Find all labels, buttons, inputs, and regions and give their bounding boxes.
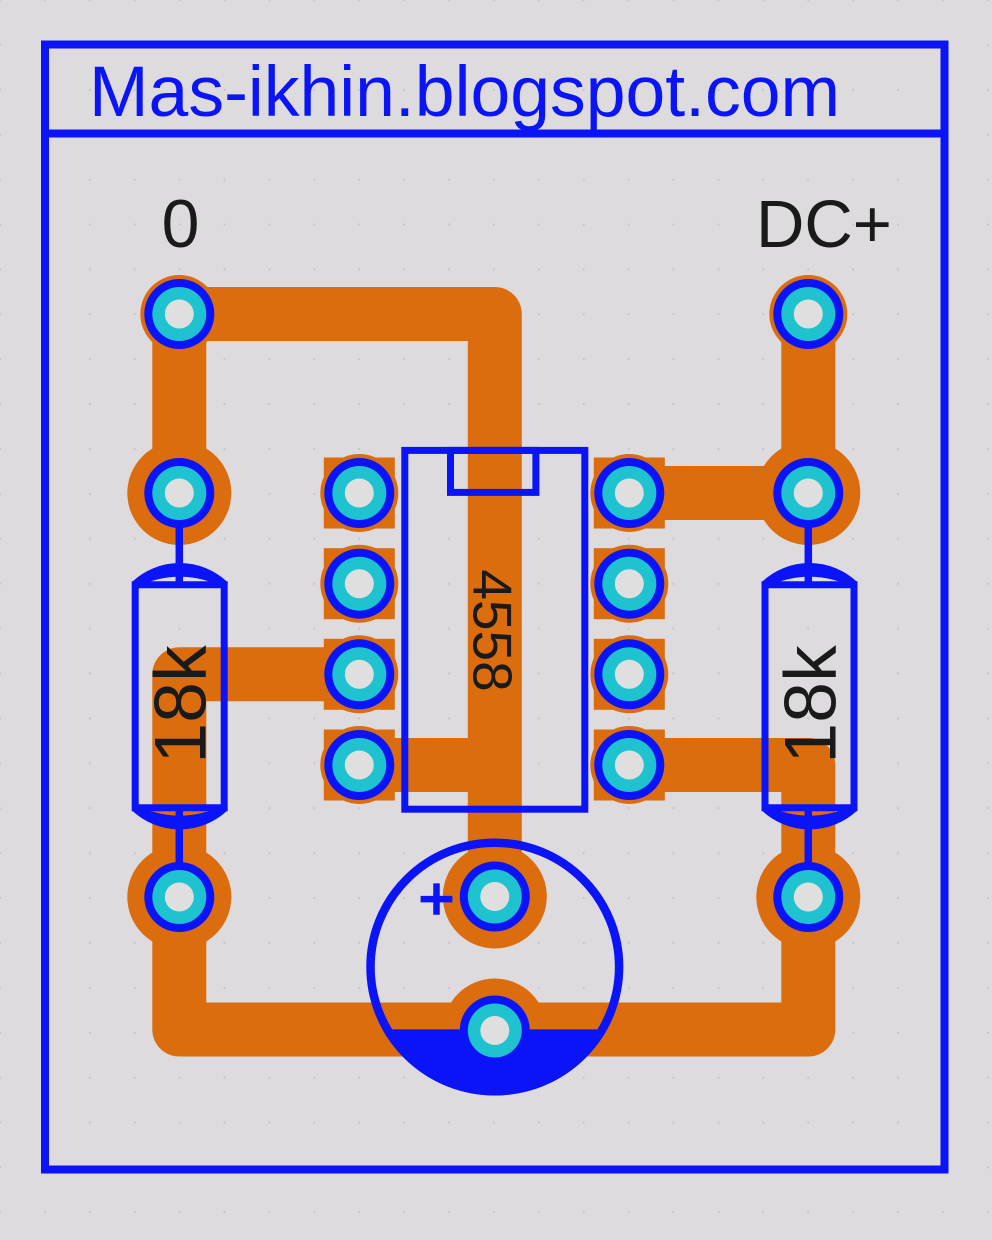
pad DC+ copper <box>769 275 847 353</box>
svg-text:18k: 18k <box>139 645 222 764</box>
resistor R2 body <box>765 585 854 808</box>
resistor R1 body <box>135 585 224 808</box>
U1 pin 5 copper <box>590 726 668 804</box>
U1 pin 4 annular ring and hole <box>324 730 394 800</box>
svg-text:0: 0 <box>162 186 200 262</box>
pad 0 copper <box>140 275 218 353</box>
capacitor C1 plus marking <box>421 883 453 914</box>
U1 pin 6 annular ring and hole <box>594 639 664 709</box>
capacitor C1 polarity stripe fill <box>383 1029 608 1095</box>
resistor R2 end domes <box>765 567 854 825</box>
resistor R1 leads <box>176 493 184 897</box>
R1 top pad annular ring and hole <box>144 458 214 528</box>
U1 pin 6 copper <box>590 635 668 713</box>
op-amp U1 pin-1 notch <box>451 450 536 492</box>
pad 0 annular ring and hole <box>144 279 214 349</box>
svg-text:4558: 4558 <box>461 569 523 691</box>
U1 pin 2 annular ring and hole <box>324 549 394 619</box>
resistor R2 end seams <box>765 574 854 819</box>
R1 bottom pad copper <box>127 845 231 949</box>
title separator line <box>45 130 945 138</box>
R1 top pad copper <box>127 441 231 545</box>
U1 pin 7 copper <box>590 545 668 623</box>
C1 minus pad annular ring and hole <box>460 996 530 1066</box>
wire: trace from pad 0 right and down through U1 to C1 plus pad <box>179 314 495 897</box>
R1 bottom pad annular ring and hole <box>144 862 214 932</box>
svg-text:Mas-ikhin.blogspot.com: Mas-ikhin.blogspot.com <box>89 52 840 132</box>
U1 pin 3 copper <box>320 635 398 713</box>
C1 plus pad copper <box>443 845 547 949</box>
wire: trace from pad 0 down to R1 top pad <box>152 314 206 493</box>
U1 pin 8 annular ring and hole <box>594 458 664 528</box>
R2 top pad annular ring and hole <box>773 458 843 528</box>
svg-text:DC+: DC+ <box>756 187 892 262</box>
wire: trace from U1 pin 4 to center vertical trace <box>359 738 495 792</box>
C1 plus pad annular ring and hole <box>460 862 530 932</box>
resistor R2 leads <box>805 493 813 897</box>
U1 pin 8 copper <box>590 454 668 532</box>
op-amp U1 body outline <box>405 450 585 809</box>
wire: trace from U1 pin 3 left then down to R1 bottom pad <box>179 674 359 897</box>
resistor R1 end domes <box>135 567 224 825</box>
U1 pin 1 annular ring and hole <box>324 458 394 528</box>
R2 bottom pad copper <box>756 845 860 949</box>
C1 minus pad copper <box>443 979 547 1083</box>
U1 pin 3 annular ring and hole <box>324 639 394 709</box>
R2 top pad copper <box>756 441 860 545</box>
wire: trace from U1 pin 8 to R2 top pad <box>629 466 808 520</box>
U1 pin 5 annular ring and hole <box>594 730 664 800</box>
U1 pin 4 copper <box>320 726 398 804</box>
wire: trace from U1 pin 5 right then down to R2 bottom pad <box>629 765 808 897</box>
resistor R1 end seams <box>135 574 224 819</box>
U1 pin 7 annular ring and hole <box>594 549 664 619</box>
U1 pin 1 copper (square + round) <box>320 454 398 532</box>
wire: trace from pad DC+ down to R2 top pad <box>781 314 835 493</box>
U1 pin 2 copper <box>320 545 398 623</box>
svg-text:18k: 18k <box>769 645 852 764</box>
pad DC+ annular ring and hole <box>773 279 843 349</box>
wire: bottom bus trace R1 bottom pad to R2 bottom pad through C1 minus pad <box>179 897 808 1030</box>
capacitor C1 body outline <box>371 843 620 1092</box>
R2 bottom pad annular ring and hole <box>773 862 843 932</box>
